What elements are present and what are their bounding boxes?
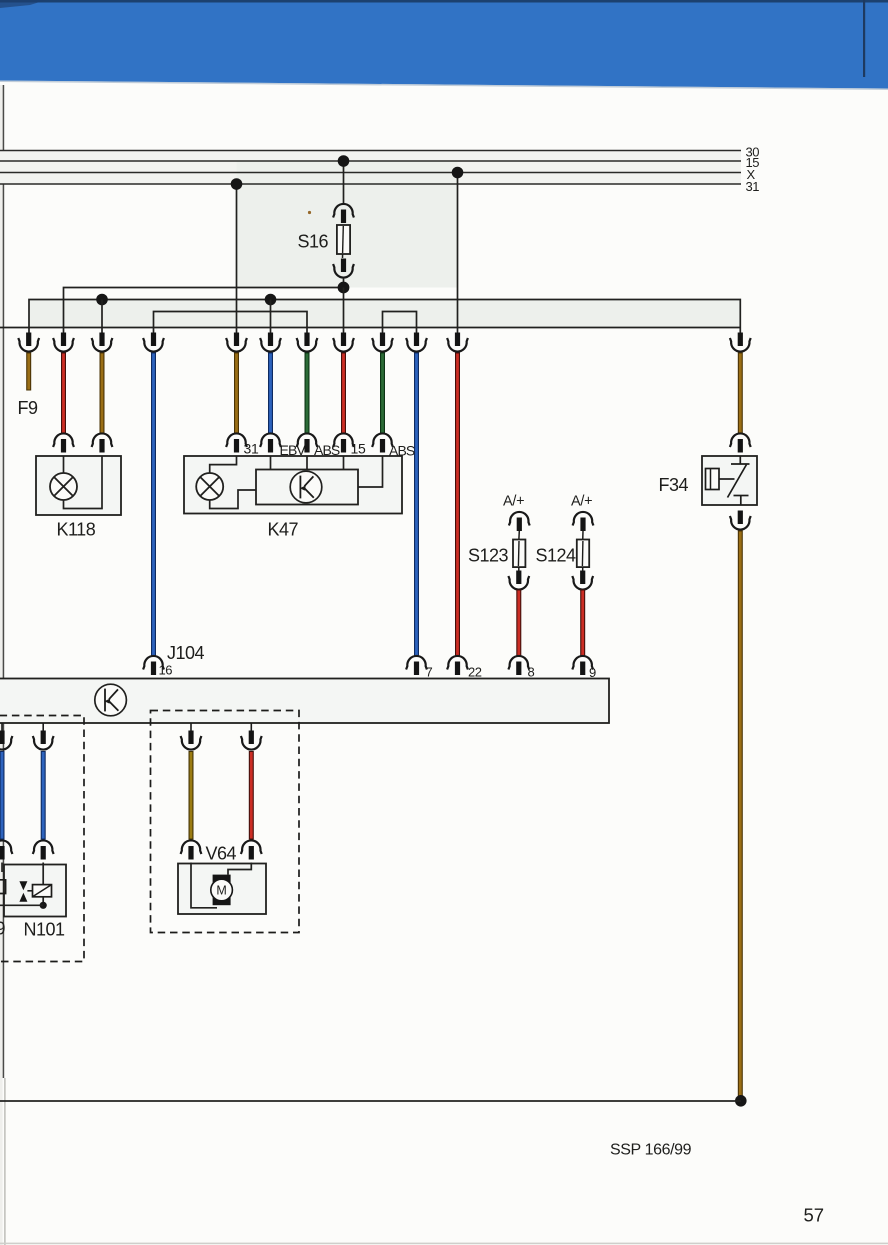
rail E full width [0,327,740,329]
svg-text:A/+: A/+ [571,494,592,510]
wire stub to fuse S123 [518,531,521,541]
svg-text:9: 9 [589,665,596,680]
bus line X [0,172,741,174]
svg-text:A/+: A/+ [503,494,524,510]
cut-off wire at page edge below J104 [1,723,3,732]
fuse S123 [513,540,525,568]
wire: S16 down to rail A [343,278,345,288]
valve bowtie symbol [19,881,27,890]
connector K47 ABS [297,433,318,452]
svg-text:8: 8 [528,665,535,680]
rail C bracket [154,312,308,334]
connector below S16 [333,259,354,278]
rail B with end corners [29,300,740,334]
V64 internal wire left [191,863,217,908]
relay symbol circle J104 [95,684,127,716]
wire red to K118 [61,353,66,434]
svg-text:J104: J104 [167,643,205,663]
wire: vertical from X-bus to pin row [457,173,459,334]
tint band between bus lines [0,151,741,185]
connector above F34 [730,433,751,452]
svg-text:K118: K118 [57,520,96,540]
connector V64 left top [181,731,202,750]
K47 wire 15 stub [343,456,345,470]
wire brown long F34 down [738,531,743,1101]
wire F9 brown [26,353,31,391]
svg-text:M: M [216,884,226,898]
connector J104 pin8 [508,656,529,675]
wire olive V64 left [189,751,194,840]
connector above S124 [573,512,594,531]
svg-text:22: 22 [468,665,482,680]
motor M [213,875,231,906]
wire stub J104 to V64 left pin [190,723,192,732]
relay symbol circle K47 [290,471,322,503]
valve N101 box [4,865,66,917]
connector J104-22 feed [447,333,468,352]
wire from N101 dot to page edge [0,904,43,906]
wire green to K47 ABS [305,353,310,434]
bottom scan edge [0,1243,888,1245]
tint band of distribution rail [29,300,740,328]
svg-text:57: 57 [804,1205,825,1226]
wire: stub rail B to pin x270.5 [270,300,272,334]
wire stub fuse S124 to pin [582,567,584,572]
wire red long to J104 pin22 [455,353,460,657]
svg-text:S123: S123 [468,546,509,566]
connector F9 feed [18,333,39,352]
connector N101 top [33,731,54,750]
node: junction on 15-bus [338,155,350,167]
wire red V64 right [249,751,254,840]
wire stub J104 to V64 right pin [250,723,252,732]
wire blue N101 [41,751,46,840]
connector below F34 [730,511,751,530]
cut-off symbol fragment at page edge [0,880,6,894]
node: junction on X-bus [452,167,464,179]
svg-text:S16: S16 [298,232,329,252]
bus line 31 [0,183,741,185]
K118 internal wire left [63,456,65,474]
node: rail B junction at x270.5 [265,294,277,306]
wire brown to F34 [738,353,743,434]
K47 wire EBV stub [270,456,272,470]
connector above K118 right [92,433,113,452]
motor V64 box [178,864,266,915]
left page-edge scan line [3,85,5,1078]
bus line 30 [0,150,741,152]
connector K118 brown feed [92,333,113,352]
svg-text:S124: S124 [536,546,577,566]
lamp in K118 [50,473,77,500]
F34 pressure element [706,469,720,490]
svg-text:SSP 166/99: SSP 166/99 [610,1142,692,1159]
wire red to K47 pin15 [341,353,346,434]
blue header banner [0,0,888,89]
relay K118 box [36,456,121,515]
connector V64 left bottom [181,840,202,859]
connector J104 pin9 [572,656,593,675]
wire brown to K47 pin31 [234,353,239,434]
wire blue long to J104 pin7 [414,353,419,657]
ground line bottom [0,1100,741,1102]
node: rail B junction at x102 [96,294,108,306]
wire: vertical from 15-bus to S16 [343,161,345,204]
wire stub J104 to N101 pin [42,723,44,732]
dashed enclosure N101 [0,716,84,962]
svg-text:31: 31 [746,179,760,194]
tint area around S16 [237,161,458,288]
connector J104 pin16 [143,656,164,675]
connector above S123 [509,512,530,531]
V64 internal wire right [228,863,251,875]
speck [308,211,311,214]
connector K47-ABS feed [297,333,318,352]
fuse S124 [577,540,589,568]
K47 wire lamp to inner box [210,490,256,509]
connector K47-15 feed [333,333,354,352]
wire: stub rail B to pin x102 [101,300,103,334]
connector below S124 [572,571,593,590]
svg-text:F34: F34 [659,475,689,495]
svg-text:16: 16 [159,663,173,678]
connector K47-31 feed [226,333,247,352]
connector J104-16 feed [143,333,164,352]
connector K47 pin15 [333,433,354,452]
connector K47-EBV feed [260,333,281,352]
svg-text:N101: N101 [24,920,66,940]
wire: stub S16 rail to pin x343.5 [343,288,345,334]
wire blue long to J104 pin16 [151,353,156,657]
connector F34 feed [730,333,751,352]
rail D bracket [383,312,417,334]
node: rail A to S16 junction [338,282,350,294]
K47 wire pin31 to lamp [210,456,237,474]
connector above K118 left [53,433,74,452]
connector above S16 [333,204,354,223]
connector J104 pin22 [447,656,468,675]
node: N101 junction dot [40,902,47,909]
rail A with corner to K118 pin [64,288,344,334]
wire green to K47 ABS2 [380,353,385,434]
F34 contact bottom [734,495,749,497]
svg-text:7: 7 [426,665,433,680]
wire blue to K47 EBV [268,353,273,434]
dashed enclosure V64 [151,711,300,933]
connector K47 pin31 [226,433,247,452]
svg-text:31: 31 [244,441,259,457]
node: junction on 31-bus [231,178,243,190]
wire stub to fuse S124 [582,531,584,541]
control unit J104 box [0,679,609,724]
wire brown to K118 [100,353,105,434]
connector J104-7 feed [406,333,427,352]
bus line 15 [0,160,741,162]
connector K47 ABS2 [372,433,393,452]
fuse S16 [343,225,344,259]
connector V64 right top [241,731,262,750]
connector J104 pin7 [406,656,427,675]
lamp in K47 [196,473,223,500]
K47 inner box [256,470,358,505]
connector N101 bottom [33,840,54,859]
connector K118 red feed [53,333,74,352]
svg-text:K47: K47 [268,520,299,540]
relay K47 outer box [184,456,402,514]
switch F34 box [702,456,757,505]
K47 wire ABS stub [306,456,308,470]
svg-text:15: 15 [351,441,366,457]
svg-text:F9: F9 [18,398,38,418]
K47 wire ABS2 to inner box [358,456,383,488]
F34 lever [728,465,747,498]
solenoid rect with diagonal [27,890,32,892]
connector K47-ABS2 feed [372,333,393,352]
svg-text:V64: V64 [206,844,237,864]
wire stub fuse S123 to pin [518,567,520,572]
connector below S123 [508,571,529,590]
wire red S123 to J104 pin8 [516,590,521,657]
connector V64 right bottom [241,840,262,859]
wire: vertical from 31-bus to pin row [236,184,238,333]
K118 internal wire loop [64,456,103,509]
N101 wire into box [42,863,44,906]
connector K47 EBV [260,433,281,452]
node: end dot of brown wire [735,1095,747,1107]
wire red S124 to J104 pin9 [580,590,585,657]
svg-text:9: 9 [0,919,6,939]
F34 contact top [739,456,741,464]
